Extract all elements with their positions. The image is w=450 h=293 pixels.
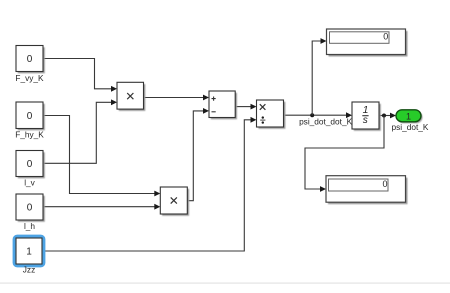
junction dot psi_dot_dot_K node: [310, 113, 314, 117]
wire Jzz to Divide input2: [42, 117, 257, 251]
svg-text:F_vy_K: F_vy_K: [15, 73, 44, 83]
svg-text:psi_dot_dot_K: psi_dot_dot_K: [299, 117, 353, 127]
svg-text:1: 1: [406, 111, 411, 121]
wire Product1 to Add input1: [144, 95, 210, 101]
display Display2 (bottom): [326, 176, 408, 205]
outport psi_dot_K (green): [396, 110, 423, 124]
faint canvas boundary line at bottom: [0, 283, 450, 284]
svg-text:l_h: l_h: [24, 221, 35, 231]
svg-text:0: 0: [27, 203, 33, 214]
display Display1 (top): [327, 29, 408, 57]
wire Product2 to Add input2: [187, 108, 209, 201]
product block Product1: [117, 82, 145, 111]
wire branch to Display2 (bottom): [305, 116, 384, 192]
svg-text:0: 0: [382, 179, 387, 189]
wire Integrator to outport psi_dot_K: [379, 113, 396, 119]
sum block Add: [209, 91, 237, 119]
constant l_v: [16, 151, 45, 179]
svg-text:1: 1: [26, 247, 32, 258]
junction dot after Integrator: [382, 114, 386, 118]
svg-text:0: 0: [27, 159, 33, 170]
wire F_vy_K to Product1 input1: [43, 59, 117, 92]
divide block Divide: [257, 100, 286, 129]
svg-text:s: s: [363, 115, 368, 126]
svg-text:Jzz: Jzz: [23, 265, 35, 275]
selection highlight around Jzz: [14, 236, 44, 266]
constant F_hy_K: [16, 102, 45, 130]
constant l_h: [16, 194, 45, 222]
svg-text:0: 0: [383, 32, 388, 42]
svg-text:F_hy_K: F_hy_K: [15, 130, 44, 140]
svg-text:l_v: l_v: [24, 178, 35, 188]
product block Product2: [160, 187, 189, 216]
svg-text:0: 0: [27, 111, 33, 122]
wire l_h to Product2 input2: [43, 204, 160, 210]
wire F_hy_K to Product2 input1: [43, 116, 160, 197]
wire Add to Divide input1: [235, 104, 257, 110]
svg-text:0: 0: [27, 54, 33, 65]
integrator block 1/s: [352, 102, 381, 131]
wire l_v to Product1 input2: [43, 99, 117, 163]
wire Divide to Integrator: [284, 112, 353, 118]
constant Jzz (selected): [16, 238, 42, 264]
wire branch to Display1 (top): [312, 38, 326, 115]
svg-text:psi_dot_K: psi_dot_K: [392, 122, 429, 132]
constant F_vy_K: [16, 46, 45, 74]
